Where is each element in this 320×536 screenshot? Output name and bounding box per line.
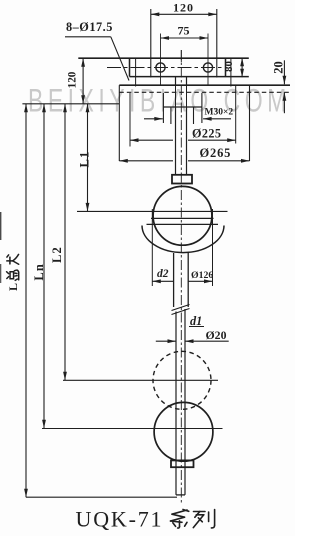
svg-text:d1: d1 [190, 314, 202, 328]
svg-text:Ln: Ln [32, 263, 46, 281]
svg-text:M30×2: M30×2 [205, 108, 234, 118]
svg-text:L2: L2 [50, 246, 64, 263]
svg-text:Ø20: Ø20 [206, 328, 227, 342]
svg-text:L1: L1 [78, 151, 92, 168]
svg-text:Ø225: Ø225 [192, 127, 221, 141]
svg-text:L: L [6, 283, 20, 291]
svg-text:20: 20 [271, 61, 285, 74]
svg-text:8–Ø17.5: 8–Ø17.5 [66, 20, 113, 34]
svg-text:UQK-71: UQK-71 [76, 507, 164, 532]
svg-text:80: 80 [223, 61, 235, 72]
svg-text:Ø126: Ø126 [191, 270, 213, 281]
svg-text:Ø265: Ø265 [200, 146, 232, 160]
svg-text:75: 75 [178, 24, 190, 38]
svg-text:120: 120 [66, 71, 78, 88]
svg-text:120: 120 [173, 1, 194, 15]
svg-text:d2: d2 [157, 268, 169, 280]
